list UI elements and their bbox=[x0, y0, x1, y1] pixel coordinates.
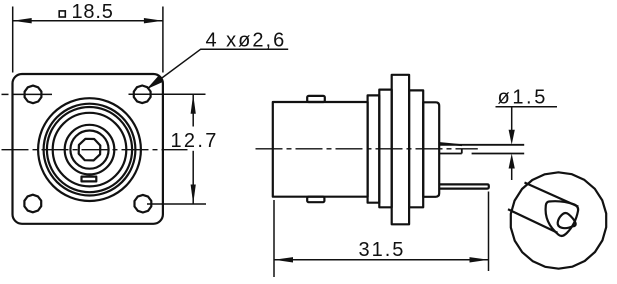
svg-text:ø1.5: ø1.5 bbox=[498, 87, 548, 109]
svg-text:4 xø2,6: 4 xø2,6 bbox=[206, 30, 287, 52]
dim line upper (dia1,5) bbox=[511, 107, 513, 132]
hole centerline top-left bbox=[2, 93, 9, 95]
extension line left (31.5) bbox=[273, 200, 275, 277]
ground lug (bottom) bbox=[440, 184, 489, 188]
connector body barrel bbox=[273, 102, 368, 197]
extension line left (18.5) bbox=[12, 7, 14, 73]
socket circle bbox=[70, 131, 108, 169]
arrowhead 31.5 left bbox=[274, 257, 293, 262]
arrowhead 18.5 left bbox=[13, 18, 32, 23]
lug tip inner contact bbox=[558, 213, 576, 228]
jack shell outer circle bbox=[38, 98, 141, 201]
leader underline dia1,5 bbox=[496, 106, 558, 108]
socket housing circle bbox=[65, 125, 115, 175]
shell inner circle bbox=[44, 104, 136, 196]
lug tube upper line bbox=[525, 183, 579, 207]
washer 3 bbox=[409, 90, 423, 207]
extension line top (12.7) from top-right hole bbox=[129, 93, 206, 95]
bayonet stud bottom bbox=[307, 197, 324, 203]
arrowhead 12.7 bottom bbox=[191, 185, 196, 205]
dimension line 18.5 bbox=[13, 20, 163, 22]
rear insulator body bbox=[423, 102, 439, 197]
washer 2 bbox=[379, 90, 391, 208]
lug tube lower line bbox=[508, 209, 558, 233]
insulator circle bbox=[53, 113, 127, 187]
mounting hole top-right bbox=[134, 86, 151, 104]
washer 1 bbox=[368, 95, 380, 202]
center contact lug (top) bbox=[439, 144, 524, 146]
arrowhead dia1,5 upper bbox=[509, 130, 515, 145]
extension line bottom (12.7) from bottom-right hole bbox=[147, 203, 206, 205]
arrowhead dia1,5 lower bbox=[509, 154, 515, 169]
dim line lower (dia1,5) bbox=[511, 167, 513, 180]
svg-text:18.5: 18.5 bbox=[72, 1, 114, 23]
svg-text:31.5: 31.5 bbox=[359, 239, 406, 261]
mounting hole bottom-right bbox=[135, 195, 152, 213]
arrowhead 12.7 top bbox=[191, 94, 196, 114]
mounting hole bottom-left bbox=[24, 195, 41, 213]
leader line 4x2.6 bbox=[148, 49, 288, 88]
svg-text:12.7: 12.7 bbox=[171, 130, 219, 152]
flange outline bbox=[13, 74, 163, 224]
lug tip outline bbox=[546, 201, 579, 236]
leader arrowhead 4x2,6 bbox=[147, 76, 164, 90]
extension line right (18.5) bbox=[162, 7, 164, 73]
centerline middle view bbox=[256, 148, 478, 150]
main horizontal centerline left view bbox=[2, 149, 188, 151]
mounting hole top-left bbox=[25, 86, 42, 104]
arrowhead 18.5 right bbox=[144, 18, 163, 23]
dimension line 12.7 bbox=[192, 94, 194, 126]
extension line bottom of lug (1,5) bbox=[472, 153, 525, 155]
mounting plate bbox=[392, 75, 409, 225]
square symbol bbox=[59, 11, 65, 17]
arrowhead 31.5 right bbox=[470, 257, 489, 262]
bore circle bbox=[47, 107, 132, 192]
extension line right (31.5) bbox=[488, 192, 490, 272]
keyway slot bbox=[82, 177, 97, 182]
center contact bbox=[79, 139, 101, 161]
bayonet stud top bbox=[307, 96, 325, 102]
dimension line 31.5 bbox=[274, 259, 489, 261]
detail view circle bbox=[511, 172, 606, 268]
